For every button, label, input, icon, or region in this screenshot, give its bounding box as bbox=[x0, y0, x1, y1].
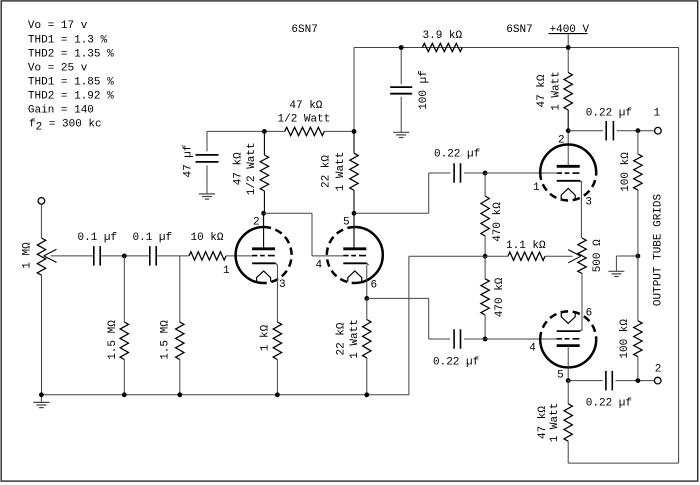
svg-text:1/2 Watt: 1/2 Watt bbox=[246, 142, 258, 195]
svg-text:2: 2 bbox=[253, 217, 260, 229]
svg-text:47 kΩ: 47 kΩ bbox=[537, 406, 549, 439]
svg-text:6: 6 bbox=[371, 280, 378, 292]
svg-text:47 kΩ: 47 kΩ bbox=[536, 74, 548, 107]
svg-text:0.22 µf: 0.22 µf bbox=[586, 107, 632, 119]
svg-text:47 kΩ: 47 kΩ bbox=[289, 100, 322, 112]
svg-text:THD2 = 1.35 %: THD2 = 1.35 % bbox=[28, 48, 114, 60]
svg-text:THD1 = 1.3 %: THD1 = 1.3 % bbox=[28, 34, 108, 46]
svg-text:6SN7: 6SN7 bbox=[506, 24, 532, 36]
svg-text:5: 5 bbox=[557, 370, 564, 382]
svg-text:2: 2 bbox=[655, 364, 662, 376]
svg-text:1: 1 bbox=[654, 108, 661, 120]
svg-text:47 kΩ: 47 kΩ bbox=[233, 152, 245, 185]
svg-text:1.5 MΩ: 1.5 MΩ bbox=[160, 320, 172, 360]
svg-text:1.1 kΩ: 1.1 kΩ bbox=[506, 240, 546, 252]
svg-text:47 µf: 47 µf bbox=[183, 144, 195, 177]
svg-text:100 kΩ: 100 kΩ bbox=[619, 319, 631, 359]
svg-text:2: 2 bbox=[558, 135, 565, 147]
svg-text:f2 = 300 kc: f2 = 300 kc bbox=[29, 119, 102, 134]
svg-text:3.9 kΩ: 3.9 kΩ bbox=[423, 30, 463, 42]
svg-text:1 Watt: 1 Watt bbox=[349, 319, 361, 359]
svg-text:5: 5 bbox=[343, 217, 350, 229]
svg-text:1 MΩ: 1 MΩ bbox=[21, 242, 33, 269]
svg-text:3: 3 bbox=[279, 279, 286, 291]
svg-text:Vo = 25 v: Vo = 25 v bbox=[28, 62, 88, 74]
svg-text:6: 6 bbox=[586, 308, 593, 320]
svg-text:4: 4 bbox=[316, 260, 323, 272]
svg-text:1: 1 bbox=[223, 265, 230, 277]
svg-text:Gain = 140: Gain = 140 bbox=[28, 105, 94, 117]
svg-text:THD1 = 1.85 %: THD1 = 1.85 % bbox=[28, 76, 114, 88]
svg-text:22 kΩ: 22 kΩ bbox=[336, 322, 348, 355]
svg-text:1 Watt: 1 Watt bbox=[549, 403, 561, 443]
svg-text:6SN7: 6SN7 bbox=[291, 24, 317, 36]
svg-text:0.1 µf: 0.1 µf bbox=[133, 232, 173, 244]
svg-text:1 kΩ: 1 kΩ bbox=[260, 324, 272, 351]
svg-text:4: 4 bbox=[529, 342, 536, 354]
svg-text:OUTPUT TUBE GRIDS: OUTPUT TUBE GRIDS bbox=[652, 193, 664, 306]
svg-text:100 µf: 100 µf bbox=[418, 70, 430, 110]
svg-text:470 kΩ: 470 kΩ bbox=[492, 202, 504, 242]
svg-text:100 kΩ: 100 kΩ bbox=[620, 152, 632, 192]
svg-text:470 kΩ: 470 kΩ bbox=[494, 277, 506, 317]
svg-text:3: 3 bbox=[585, 197, 592, 209]
svg-text:Vo = 17 v: Vo = 17 v bbox=[28, 20, 88, 32]
svg-text:500 Ω: 500 Ω bbox=[592, 239, 604, 272]
svg-text:1/2 Watt: 1/2 Watt bbox=[278, 113, 331, 125]
svg-text:1 Watt: 1 Watt bbox=[335, 152, 347, 192]
svg-text:1.5 MΩ: 1.5 MΩ bbox=[107, 320, 119, 360]
svg-text:0.1 µf: 0.1 µf bbox=[78, 232, 118, 244]
svg-text:10 kΩ: 10 kΩ bbox=[191, 232, 224, 244]
svg-text:22 kΩ: 22 kΩ bbox=[321, 155, 333, 188]
svg-text:0.22 µf: 0.22 µf bbox=[433, 356, 479, 368]
svg-text:0.22 µf: 0.22 µf bbox=[586, 397, 632, 409]
svg-text:1 Watt: 1 Watt bbox=[551, 71, 563, 111]
svg-text:0.22 µf: 0.22 µf bbox=[434, 148, 480, 160]
svg-text:THD2 = 1.92 %: THD2 = 1.92 % bbox=[28, 91, 114, 103]
svg-text:1: 1 bbox=[533, 182, 540, 194]
